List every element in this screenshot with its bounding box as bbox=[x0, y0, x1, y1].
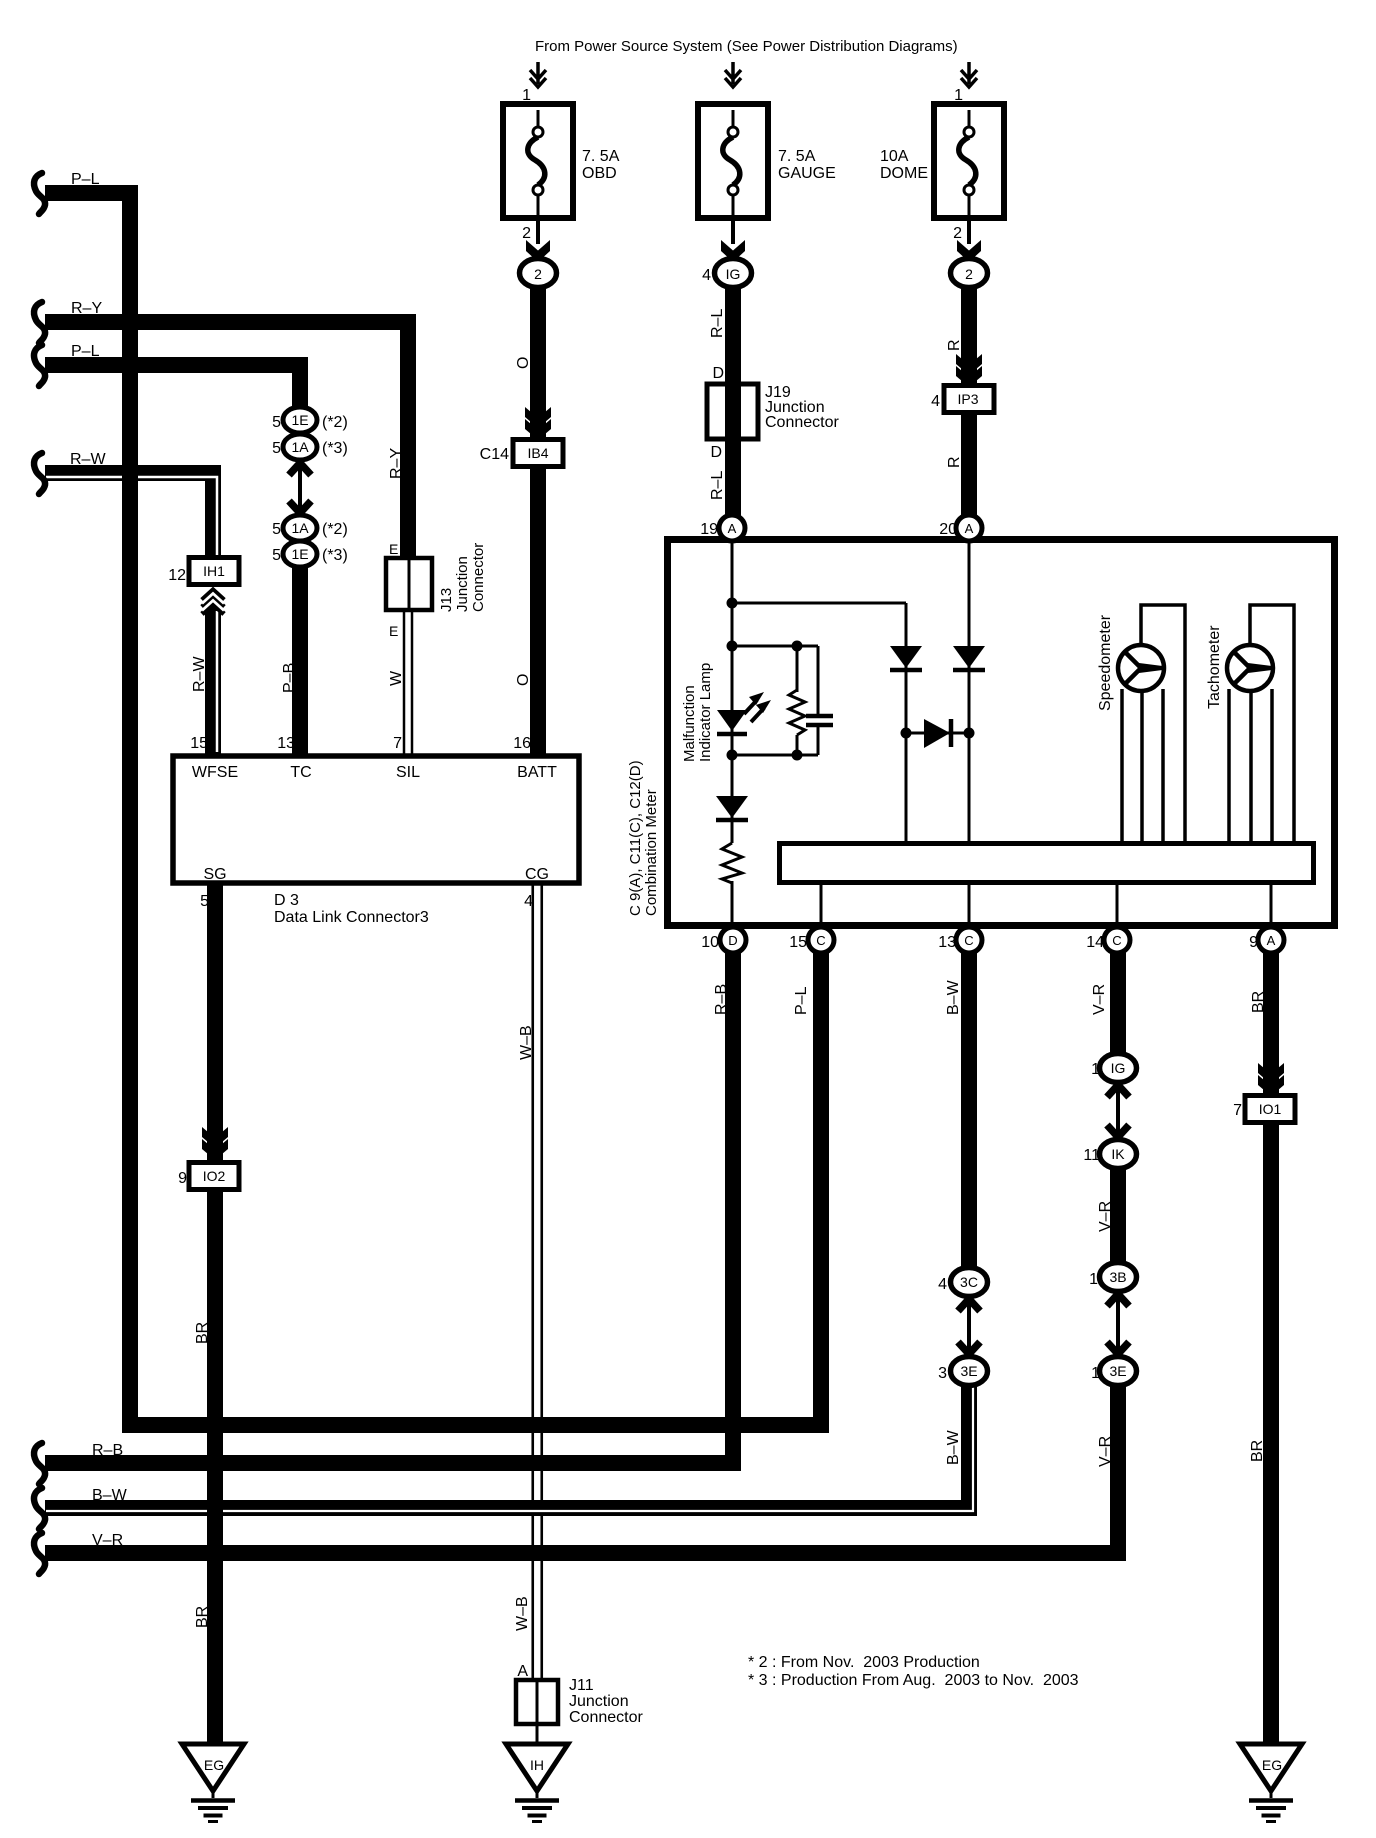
hollow arrow into IH1 bbox=[202, 590, 224, 614]
capacitor in RC pair bbox=[806, 716, 833, 725]
svg-text:7: 7 bbox=[1233, 1102, 1242, 1119]
wire CG (W-B) double thin line from D3 CG down to J11 bbox=[533, 884, 542, 1680]
svg-text:Tachometer: Tachometer bbox=[1206, 625, 1223, 709]
wire B-W from meter pin 13 to 3C oval bbox=[961, 946, 977, 1272]
brace B-W bbox=[34, 1488, 45, 1529]
svg-text:A: A bbox=[517, 1663, 528, 1680]
svg-text:C 9(A), C11(C), C12(D): C 9(A), C11(C), C12(D) bbox=[627, 760, 644, 916]
svg-text:2: 2 bbox=[953, 225, 962, 242]
svg-text:5: 5 bbox=[272, 547, 281, 564]
junction dot diode row right bbox=[964, 728, 975, 739]
fuse OBD 7.5A bbox=[503, 104, 573, 218]
connector oval 3E (pin 3) bbox=[951, 1357, 988, 1386]
junction dot RC bottom right bbox=[792, 750, 803, 761]
wire SIL (W) double thin line from J13 to D3 SIL pin bbox=[404, 610, 412, 755]
wire RC right branch bbox=[817, 646, 820, 714]
wire label V-R lower bbox=[1097, 1436, 1114, 1467]
wire RC bottom horizontal bbox=[732, 754, 818, 757]
junction dot at 19/A branch bbox=[727, 598, 738, 609]
svg-text:D: D bbox=[712, 365, 724, 382]
wire BR from meter pin 9 through IO1 to EG ground bbox=[1263, 946, 1279, 1748]
brace R-W bbox=[34, 453, 45, 494]
svg-text:DOME: DOME bbox=[880, 165, 928, 182]
svg-text:A: A bbox=[965, 521, 974, 536]
wire label BR left upper bbox=[194, 1322, 211, 1344]
D3 Data Link Connector3 box bbox=[173, 756, 579, 883]
connector oval IK (pin 11) bbox=[1100, 1140, 1137, 1169]
wire label R lower bbox=[946, 456, 963, 468]
wire BR from D3 SG through IO2 to EG ground bbox=[207, 884, 223, 1748]
wire label R-Y vertical bbox=[388, 448, 405, 479]
svg-text:R: R bbox=[946, 339, 963, 351]
svg-text:14: 14 bbox=[1086, 934, 1104, 951]
svg-text:EG: EG bbox=[1262, 1757, 1282, 1773]
arrows between connector halves 1A to 1A bbox=[289, 463, 311, 513]
svg-text:13: 13 bbox=[277, 735, 295, 752]
wire R-W shielded from brace to IH1 and IH1 arrow to D3 WFSE bbox=[45, 473, 217, 755]
svg-text:IH1: IH1 bbox=[203, 563, 225, 579]
svg-text:Malfunction: Malfunction bbox=[681, 685, 698, 762]
svg-text:Speedometer: Speedometer bbox=[1097, 614, 1114, 711]
connector IO1 (pin 7) bbox=[1245, 1096, 1295, 1123]
wire label R upper bbox=[946, 339, 963, 351]
wire bus to pin 15 bbox=[820, 883, 823, 930]
svg-text:C: C bbox=[964, 933, 973, 948]
junction connector J13 bbox=[386, 558, 432, 610]
internal bus bar bbox=[780, 844, 1314, 883]
connector oval IG (pin 1) bbox=[1100, 1054, 1137, 1083]
svg-text:OBD: OBD bbox=[582, 165, 617, 182]
arrows between 3B and 3E bbox=[1107, 1294, 1129, 1354]
svg-text:1E: 1E bbox=[291, 412, 308, 428]
diode below LED bbox=[716, 796, 748, 820]
svg-text:3E: 3E bbox=[960, 1363, 977, 1379]
svg-text:J11: J11 bbox=[569, 1677, 594, 1694]
wire bus to pin 13 bbox=[968, 883, 971, 930]
brace P-L mid bbox=[34, 345, 45, 386]
svg-text:16: 16 bbox=[513, 735, 531, 752]
svg-text:E: E bbox=[389, 541, 398, 557]
svg-text:R–B: R–B bbox=[713, 984, 730, 1015]
svg-text:SIL: SIL bbox=[396, 764, 420, 781]
svg-text:9: 9 bbox=[1249, 934, 1258, 951]
svg-text:Junction: Junction bbox=[454, 556, 471, 612]
resistor in RC pair bbox=[789, 690, 805, 735]
svg-text:7. 5A: 7. 5A bbox=[778, 148, 816, 165]
svg-text:10: 10 bbox=[701, 934, 719, 951]
svg-text:9: 9 bbox=[178, 1170, 187, 1187]
junction connector J19 bbox=[707, 384, 758, 439]
svg-text:10A: 10A bbox=[880, 148, 909, 165]
svg-text:P–L: P–L bbox=[71, 343, 100, 360]
resistor below diode bbox=[722, 843, 742, 883]
svg-text:5: 5 bbox=[272, 440, 281, 457]
svg-text:(*2): (*2) bbox=[322, 521, 348, 538]
ground EG right bbox=[1240, 1744, 1302, 1822]
svg-text:EG: EG bbox=[204, 1757, 224, 1773]
horizontal diode bbox=[924, 719, 951, 748]
connector circle 10/D bbox=[720, 927, 746, 953]
wire P-L loop: top brace right, down left margin, bottom return, up to meter pin 15 bbox=[45, 193, 821, 1425]
svg-text:R: R bbox=[946, 456, 963, 468]
arrow into IO2 bbox=[202, 1127, 228, 1160]
MIL designation rotated bbox=[681, 663, 714, 762]
wire label W-B lower bbox=[514, 1596, 531, 1631]
junction dot RC top right bbox=[792, 641, 803, 652]
connector oval IG (GAUGE pin 4) bbox=[715, 259, 752, 288]
svg-text:Junction: Junction bbox=[569, 1693, 629, 1710]
arrow into oval 2 OBD bbox=[526, 240, 550, 262]
connector IH1 (pin 12) bbox=[189, 558, 239, 585]
wire R-B from meter pin 10 down and left to brace bbox=[45, 946, 733, 1463]
svg-text:BR: BR bbox=[194, 1606, 211, 1628]
J13 designation rotated bbox=[438, 543, 487, 612]
svg-text:V–R: V–R bbox=[92, 1532, 123, 1549]
svg-text:(*2): (*2) bbox=[322, 414, 348, 431]
wire label O lower bbox=[515, 674, 532, 686]
svg-text:BR: BR bbox=[194, 1322, 211, 1344]
wire labels row below meter bbox=[713, 984, 730, 1015]
brace R-Y bbox=[34, 302, 45, 343]
svg-text:11: 11 bbox=[1083, 1147, 1100, 1164]
svg-text:O: O bbox=[515, 357, 532, 369]
SECTION:HEAVY bbox=[45, 193, 1271, 1748]
wire 19/A feed down to MIL branch and pin 10 bbox=[731, 540, 734, 930]
svg-text:12: 12 bbox=[168, 567, 186, 584]
connector IP3 bbox=[944, 386, 994, 413]
svg-text:J13: J13 bbox=[438, 588, 455, 612]
svg-text:3E: 3E bbox=[1109, 1363, 1126, 1379]
svg-text:3: 3 bbox=[938, 1365, 947, 1382]
brace V-R bbox=[34, 1533, 45, 1574]
svg-text:W: W bbox=[388, 670, 405, 686]
svg-text:R–W: R–W bbox=[191, 656, 208, 692]
svg-text:WFSE: WFSE bbox=[192, 764, 238, 781]
wire RC left branch lower bbox=[796, 735, 799, 755]
svg-text:2: 2 bbox=[534, 266, 542, 282]
arrows between 3C and 3E bbox=[958, 1299, 980, 1354]
svg-text:15: 15 bbox=[789, 934, 807, 951]
svg-text:W–B: W–B bbox=[518, 1025, 535, 1060]
svg-text:* 2 : From Nov. 2003 Producti: * 2 : From Nov. 2003 Production bbox=[748, 1654, 980, 1671]
svg-text:D: D bbox=[728, 933, 737, 948]
wire RC top horizontal bbox=[732, 645, 818, 648]
svg-text:3B: 3B bbox=[1109, 1269, 1126, 1285]
wire fuse DOME to oval 2 bbox=[967, 218, 971, 244]
svg-text:1A: 1A bbox=[291, 439, 309, 455]
wire 20/A feed down to bus bbox=[968, 540, 971, 843]
svg-text:2: 2 bbox=[522, 225, 531, 242]
wire V-R from IK oval to 3B oval bbox=[1110, 1166, 1126, 1266]
svg-text:R–Y: R–Y bbox=[388, 448, 405, 479]
speedometer gauge bbox=[1118, 645, 1164, 691]
svg-text:CG: CG bbox=[525, 866, 549, 883]
svg-text:Connector: Connector bbox=[470, 543, 487, 612]
svg-text:IG: IG bbox=[726, 266, 741, 282]
svg-text:R–L: R–L bbox=[709, 309, 726, 338]
svg-text:IB4: IB4 bbox=[527, 445, 548, 461]
connector IO2 (pin 9) bbox=[189, 1163, 239, 1190]
wire RC left branch bbox=[796, 646, 799, 692]
svg-text:A: A bbox=[1267, 933, 1276, 948]
wire fuse GAUGE to oval IG bbox=[731, 218, 735, 244]
svg-text:P–B: P–B bbox=[281, 663, 298, 693]
diode branch 2 bbox=[953, 646, 985, 670]
fuse GAUGE 7.5A bbox=[698, 104, 768, 218]
tachometer label bbox=[1206, 625, 1223, 709]
wire B-W shielded from 3E oval down and left to brace bbox=[45, 1383, 973, 1511]
speedometer label bbox=[1097, 614, 1114, 711]
connector oval 2 (DOME pin 2) bbox=[951, 259, 988, 288]
wire label R-L upper bbox=[709, 309, 726, 338]
ground EG left bbox=[182, 1744, 244, 1822]
svg-text:V–R: V–R bbox=[1097, 1436, 1114, 1467]
diode branch 1 bbox=[890, 646, 922, 670]
svg-text:O: O bbox=[515, 674, 532, 686]
arrow into oval IG GAUGE bbox=[721, 240, 745, 262]
wire fuse OBD to oval 2 bbox=[536, 218, 540, 244]
arrow from power source OBD bbox=[530, 62, 546, 87]
wire horizontal to diode branch 1 bbox=[732, 602, 906, 605]
svg-text:1: 1 bbox=[1091, 1365, 1100, 1382]
brace R-B bbox=[34, 1443, 45, 1484]
junction dot at RC top bbox=[727, 641, 738, 652]
junction dot diode row left bbox=[901, 728, 912, 739]
svg-text:IP3: IP3 bbox=[957, 391, 978, 407]
fuse DOME 10A bbox=[934, 104, 1004, 218]
combination meter box bbox=[668, 540, 1335, 926]
tachometer gauge bbox=[1227, 645, 1273, 691]
svg-text:From Power Source System (See: From Power Source System (See Power Dist… bbox=[535, 38, 958, 55]
speedometer frame wires bbox=[1122, 605, 1185, 843]
wire P-B from ovals 1A/1E to D3 TC bbox=[292, 562, 308, 755]
svg-text:D 3: D 3 bbox=[274, 892, 299, 909]
svg-text:1: 1 bbox=[954, 87, 963, 104]
LED malfunction indicator lamp bbox=[717, 692, 771, 734]
svg-text:Connector: Connector bbox=[765, 414, 839, 431]
svg-text:1: 1 bbox=[1091, 1061, 1100, 1078]
svg-text:* 3 : Production From Aug. 20: * 3 : Production From Aug. 2003 to Nov. … bbox=[748, 1672, 1079, 1689]
svg-text:BATT: BATT bbox=[517, 764, 557, 781]
svg-text:D: D bbox=[710, 444, 722, 461]
svg-text:13: 13 bbox=[938, 934, 956, 951]
svg-text:5: 5 bbox=[272, 521, 281, 538]
wire V-R from meter pin 14 to IG oval bbox=[1110, 946, 1126, 1058]
arrows between IG and IK bbox=[1107, 1085, 1129, 1137]
svg-text:C: C bbox=[1112, 933, 1121, 948]
svg-text:C: C bbox=[816, 933, 825, 948]
wire O from IB4 to D3 BATT bbox=[530, 465, 546, 755]
wire bus to pin 9 bbox=[1270, 883, 1273, 930]
svg-text:(*3): (*3) bbox=[322, 547, 348, 564]
wire V-R from 3E oval down and left to brace bbox=[45, 1383, 1118, 1553]
svg-text:1A: 1A bbox=[291, 520, 309, 536]
wire label R-W vertical bbox=[191, 656, 208, 692]
arrow from power source GAUGE bbox=[725, 62, 741, 87]
junction connector J11 bbox=[516, 1680, 558, 1724]
svg-text:4: 4 bbox=[524, 893, 533, 910]
svg-text:E: E bbox=[389, 623, 398, 639]
svg-text:SG: SG bbox=[203, 866, 226, 883]
arrow from power source DOME bbox=[961, 62, 977, 87]
wire R from oval 2 to IP3 bbox=[961, 287, 977, 388]
combination meter internal wiring bbox=[732, 540, 1271, 930]
connector ovals 1A/1E (pin 5) bbox=[283, 515, 317, 541]
svg-text:B–W: B–W bbox=[945, 979, 962, 1015]
svg-text:TC: TC bbox=[290, 764, 311, 781]
svg-text:P–L: P–L bbox=[71, 171, 100, 188]
junction dot RC bottom bbox=[727, 750, 738, 761]
svg-text:IO2: IO2 bbox=[203, 1168, 226, 1184]
svg-text:20: 20 bbox=[939, 521, 957, 538]
svg-text:GAUGE: GAUGE bbox=[778, 165, 836, 182]
connector circle 15/C bbox=[808, 927, 834, 953]
svg-text:A: A bbox=[728, 521, 737, 536]
svg-text:B–W: B–W bbox=[92, 1487, 128, 1504]
svg-text:W–B: W–B bbox=[514, 1596, 531, 1631]
connector circle 9/A bbox=[1258, 927, 1284, 953]
meter designation rotated bbox=[627, 760, 660, 916]
connector C14 IB4 bbox=[513, 440, 563, 467]
wire R-L from IG oval through J19 to meter pin 19 bbox=[725, 287, 741, 518]
wire horizontal diode link bbox=[906, 732, 969, 735]
svg-text:1: 1 bbox=[522, 87, 531, 104]
svg-text:Data Link Connector3: Data Link Connector3 bbox=[274, 909, 429, 926]
wire label P-B vertical bbox=[281, 663, 298, 693]
svg-text:R–B: R–B bbox=[92, 1442, 123, 1459]
connector ovals 1E/1A (pin 5) bbox=[283, 407, 317, 433]
connector circle 13/C bbox=[956, 927, 982, 953]
svg-text:IO1: IO1 bbox=[1259, 1101, 1282, 1117]
wire R-Y from brace to J13 bbox=[45, 322, 408, 560]
svg-text:7. 5A: 7. 5A bbox=[582, 148, 620, 165]
svg-text:15: 15 bbox=[190, 735, 208, 752]
wire label BR right lower bbox=[1249, 1440, 1266, 1462]
svg-text:BR: BR bbox=[1250, 991, 1267, 1013]
svg-text:5: 5 bbox=[200, 893, 209, 910]
arrow into IO1 bbox=[1258, 1063, 1284, 1096]
svg-text:4: 4 bbox=[938, 1276, 947, 1293]
wire O from oval 2 to C14 IB4 bbox=[530, 287, 546, 442]
connector oval 2 (OBD pin 2) bbox=[520, 259, 557, 288]
svg-text:5: 5 bbox=[272, 414, 281, 431]
svg-text:19: 19 bbox=[700, 521, 718, 538]
svg-text:1E: 1E bbox=[291, 546, 308, 562]
svg-text:IK: IK bbox=[1111, 1146, 1125, 1162]
wire label B-W lower bbox=[945, 1429, 962, 1465]
svg-text:B–W: B–W bbox=[945, 1429, 962, 1465]
svg-text:4: 4 bbox=[702, 267, 711, 284]
svg-text:IH: IH bbox=[530, 1757, 544, 1773]
svg-text:3C: 3C bbox=[960, 1274, 978, 1290]
svg-text:IG: IG bbox=[1111, 1060, 1126, 1076]
wire label R-L lower bbox=[709, 471, 726, 500]
connector oval 3B (pin 1) bbox=[1100, 1263, 1137, 1292]
connector circle 19/A bbox=[719, 515, 745, 541]
svg-text:R–L: R–L bbox=[709, 471, 726, 500]
connector oval 3E (pin 1) bbox=[1100, 1357, 1137, 1386]
connector oval 3C (pin 4) bbox=[951, 1268, 988, 1297]
svg-text:C14: C14 bbox=[480, 446, 509, 463]
svg-text:7: 7 bbox=[393, 735, 402, 752]
connector circle 14/C bbox=[1104, 927, 1130, 953]
arrow into IP3 bbox=[956, 354, 982, 387]
wire label V-R mid bbox=[1097, 1201, 1114, 1232]
svg-text:BR: BR bbox=[1249, 1440, 1266, 1462]
brace P-L top bbox=[34, 173, 45, 214]
wire label W vertical bbox=[388, 670, 405, 686]
wire label BR left lower bbox=[194, 1606, 211, 1628]
svg-text:V–R: V–R bbox=[1097, 1201, 1114, 1232]
wire J11 to IH ground bbox=[536, 1724, 539, 1748]
wire R from IP3 to meter pin 20 bbox=[961, 410, 977, 518]
ground IH bbox=[506, 1744, 568, 1822]
tachometer frame wires bbox=[1229, 605, 1294, 843]
svg-text:P–L: P–L bbox=[793, 986, 810, 1015]
wire bus to pin 14 bbox=[1116, 883, 1119, 930]
wire diode branch 1 vertical bbox=[905, 603, 908, 843]
wire label W-B upper bbox=[518, 1025, 535, 1060]
svg-text:Combination Meter: Combination Meter bbox=[643, 789, 660, 916]
svg-text:Indicator Lamp: Indicator Lamp bbox=[697, 663, 714, 762]
connector circle 20/A bbox=[956, 515, 982, 541]
svg-text:R–Y: R–Y bbox=[71, 300, 102, 317]
svg-text:(*3): (*3) bbox=[322, 440, 348, 457]
svg-text:Connector: Connector bbox=[569, 1709, 643, 1726]
svg-text:1: 1 bbox=[1089, 1271, 1098, 1288]
svg-text:2: 2 bbox=[965, 266, 973, 282]
arrow into C14 IB4 bbox=[525, 407, 551, 440]
svg-text:R–W: R–W bbox=[70, 451, 106, 468]
svg-text:V–R: V–R bbox=[1091, 984, 1108, 1015]
wire label O upper bbox=[515, 357, 532, 369]
arrow into oval 2 DOME bbox=[957, 240, 981, 262]
wire P-L from brace to connector ovals 1E/1A bbox=[45, 365, 300, 410]
wire RC right branch below capacitor bbox=[817, 727, 820, 755]
svg-text:4: 4 bbox=[931, 393, 940, 410]
